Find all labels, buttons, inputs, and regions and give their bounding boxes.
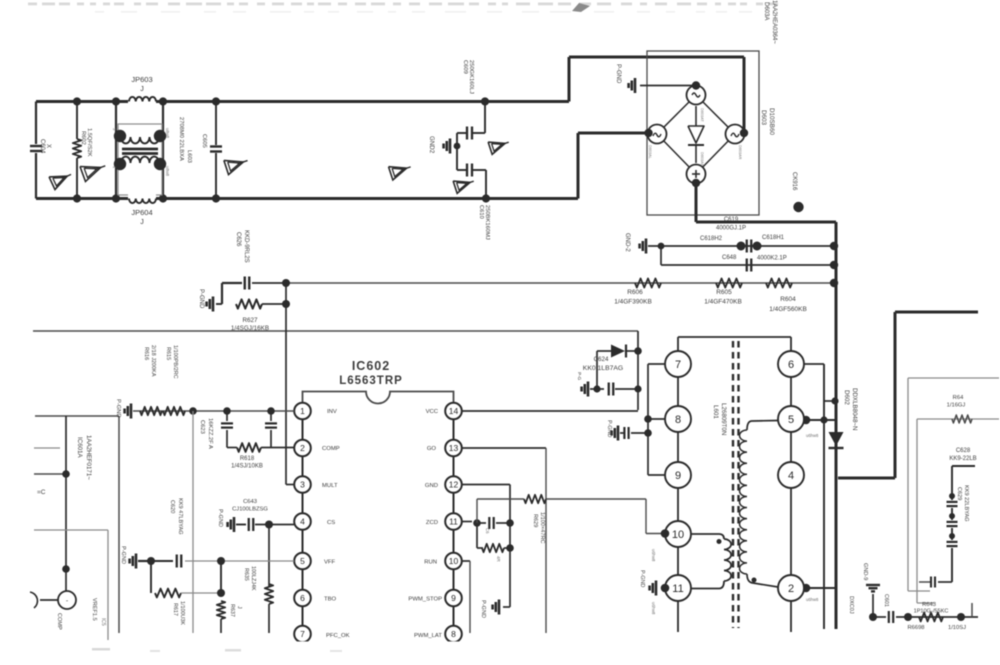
svg-text:1AA2HEA0364~: 1AA2HEA0364~ [771,0,777,44]
svg-text:CK916: CK916 [791,172,797,191]
svg-text:1/4GF470KB: 1/4GF470KB [704,299,742,306]
svg-text:1/100×47RC: 1/100×47RC [539,512,545,544]
svg-text:D603A: D603A [763,2,769,20]
svg-text:GND-2: GND-2 [624,233,630,252]
svg-text:1/4GF390KB: 1/4GF390KB [614,299,652,306]
svg-text:100LZJ4K: 100LZJ4K [250,566,256,591]
svg-text:MULT: MULT [322,483,338,489]
svg-text:8: 8 [451,629,456,639]
svg-text:L603: L603 [186,150,192,163]
svg-text:D603AB: D603AB [700,152,704,167]
svg-text:KK0.1LB7AG: KK0.1LB7AG [583,365,623,372]
svg-text:C629: C629 [956,487,962,500]
svg-text:10: 10 [449,556,459,566]
svg-text:D603: D603 [760,110,767,126]
svg-text:COMP: COMP [322,446,340,452]
svg-text:INV: INV [327,409,337,415]
svg-text:VCC: VCC [426,409,439,415]
svg-text:u6hw8: u6hw8 [651,549,656,562]
svg-text:PFC_OK: PFC_OK [326,633,350,639]
svg-text:u6hw8: u6hw8 [806,597,819,602]
svg-text:1/4GF560KB: 1/4GF560KB [769,306,807,313]
svg-text:3: 3 [300,480,305,490]
svg-text:P-GND: P-GND [615,64,621,84]
svg-text:P-GND: P-GND [198,289,204,309]
svg-text:4: 4 [788,470,794,482]
svg-text:KKD-9RL2S: KKD-9RL2S [243,230,249,263]
svg-text:R606: R606 [627,289,643,296]
svg-text:7: 7 [675,359,681,371]
svg-text:C618H2: C618H2 [700,236,723,242]
svg-text:J: J [236,606,242,609]
svg-text:1/100PB/2RC: 1/100PB/2RC [172,345,178,379]
svg-text:1P10G-/55KC: 1P10G-/55KC [914,609,949,615]
svg-text:P-GND: P-GND [120,546,126,564]
svg-text:D602: D602 [843,390,850,405]
svg-text:CJ100LBZSG: CJ100LBZSG [232,507,268,513]
svg-text:ZCD: ZCD [426,520,438,526]
svg-text:JP604: JP604 [131,208,152,217]
svg-text:C618H1: C618H1 [762,235,785,241]
svg-text:1/4SJ/10KB: 1/4SJ/10KB [231,464,263,470]
svg-text:R602: R602 [80,131,86,145]
svg-text:R64: R64 [953,395,964,401]
svg-text:C609: C609 [462,60,468,74]
svg-text:u8w8: u8w8 [165,128,170,139]
svg-text:D603AT: D603AT [700,108,704,122]
svg-text:2/18 J200KA: 2/18 J200KA [150,345,156,377]
svg-text:JP603: JP603 [131,75,152,84]
svg-text:R605: R605 [716,289,732,296]
svg-text:R615: R615 [165,347,171,360]
svg-text:P-GND: P-GND [115,399,121,418]
svg-text:C604: C604 [39,139,45,154]
svg-text:C601: C601 [883,594,889,607]
svg-text:10: 10 [672,529,684,541]
svg-text:KK9 47LBYAG: KK9 47LBYAG [177,498,183,535]
svg-text:R629: R629 [532,514,538,527]
svg-text:D603AR: D603AR [738,145,742,160]
svg-text:P-G: P-G [577,372,582,381]
svg-text:11: 11 [449,517,458,527]
svg-text:R643: R643 [922,602,936,608]
svg-text:4R: 4R [496,556,501,562]
svg-text:250BK160MJ: 250BK160MJ [484,205,490,240]
svg-text:11: 11 [672,583,683,595]
svg-text:P-GND: P-GND [606,420,612,437]
svg-text:GO: GO [427,446,437,452]
svg-text:IC5: IC5 [100,618,106,626]
svg-text:KK9 22LBYAG: KK9 22LBYAG [963,485,969,522]
svg-text:X: X [45,144,51,148]
svg-text:9: 9 [451,593,456,603]
svg-text:1AA2HEF0171~: 1AA2HEF0171~ [85,435,92,480]
svg-text:1/16GJ: 1/16GJ [947,403,966,409]
svg-text:1/10SJ: 1/10SJ [948,625,966,631]
svg-text:VREF1.5: VREF1.5 [91,598,97,621]
svg-text:13: 13 [449,443,459,453]
svg-text:C628: C628 [956,448,971,454]
svg-text:R604: R604 [780,296,796,303]
svg-text:8: 8 [675,414,681,426]
svg-text:VFF: VFF [324,560,336,566]
svg-text:R635: R635 [243,568,249,581]
svg-text:TBO: TBO [324,597,337,603]
svg-text:=C: =C [37,489,46,496]
svg-text:P-GND: P-GND [480,600,486,618]
svg-text:PWM_STOP: PWM_STOP [408,597,442,603]
svg-text:1/4SGJ/16KB: 1/4SGJ/16KB [231,325,269,332]
svg-text:D603AL: D603AL [648,145,652,159]
svg-text:R618: R618 [240,456,255,462]
svg-text:L6563TRP: L6563TRP [339,375,403,387]
svg-text:C623: C623 [199,420,205,434]
svg-text:R6698: R6698 [907,625,924,631]
svg-text:C620: C620 [169,500,175,513]
svg-text:4000K2.1P: 4000K2.1P [757,256,787,262]
svg-text:R616: R616 [143,347,149,360]
svg-text:J: J [140,219,144,226]
svg-text:u6hw8: u6hw8 [806,433,819,438]
svg-text:u8w8: u8w8 [165,166,170,177]
svg-text:2708M0 22LBXA: 2708M0 22LBXA [178,117,184,161]
svg-text:DDXLB8048~N: DDXLB8048~N [851,388,858,430]
svg-text:IC601A: IC601A [76,437,83,459]
svg-text:GND2: GND2 [428,136,435,154]
svg-text:D10SB60: D10SB60 [768,108,775,135]
svg-text:P-GND: P-GND [217,509,223,527]
svg-text:250GK160LJ: 250GK160LJ [468,60,474,94]
svg-text:C619: C619 [724,217,739,223]
svg-text:COMP: COMP [56,613,62,630]
svg-text:1/100U3K: 1/100U3K [179,601,185,625]
svg-text:u6hw8: u6hw8 [651,602,656,615]
svg-text:12: 12 [449,480,459,490]
svg-text:IC602: IC602 [352,359,390,373]
svg-text:5: 5 [788,414,794,426]
svg-text:1: 1 [300,406,305,416]
svg-text:L601: L601 [712,405,719,419]
svg-text:9: 9 [675,470,681,482]
svg-text:R617: R617 [172,603,178,616]
svg-text:KK9-22LB: KK9-22LB [949,456,976,462]
svg-text:C605: C605 [201,134,207,148]
svg-text:1.5QF/S2K: 1.5QF/S2K [86,128,92,157]
svg-text:4000GJ.1P: 4000GJ.1P [716,226,746,232]
svg-text:7: 7 [300,629,305,639]
svg-text:C626: C626 [235,232,241,247]
svg-text:16KZZ.2F A: 16KZZ.2F A [207,418,213,449]
svg-text:GND: GND [425,483,438,489]
svg-text:C643: C643 [243,499,257,505]
svg-text:CS: CS [327,520,335,526]
svg-text:R637: R637 [229,604,235,617]
svg-text:C6: C6 [485,528,490,534]
svg-text:6: 6 [788,359,794,371]
svg-text:P-GND: P-GND [639,570,645,587]
svg-text:GND-9: GND-9 [862,563,868,580]
svg-text:6: 6 [300,593,305,603]
svg-text:C624: C624 [594,356,609,363]
svg-text:4: 4 [300,517,305,527]
svg-text:2: 2 [788,583,794,595]
svg-text:2: 2 [300,443,305,453]
svg-text:J: J [140,86,144,93]
svg-text:RUN: RUN [424,560,437,566]
svg-text:DXC0J: DXC0J [848,596,854,614]
svg-text:14: 14 [449,406,459,416]
svg-text:R627: R627 [242,317,258,324]
svg-text:L26809T0N: L26809T0N [720,403,727,435]
svg-text:5: 5 [300,556,305,566]
svg-text:PWM_LAT: PWM_LAT [414,633,442,639]
svg-text:C648: C648 [722,255,737,261]
svg-text:C610: C610 [478,205,484,219]
